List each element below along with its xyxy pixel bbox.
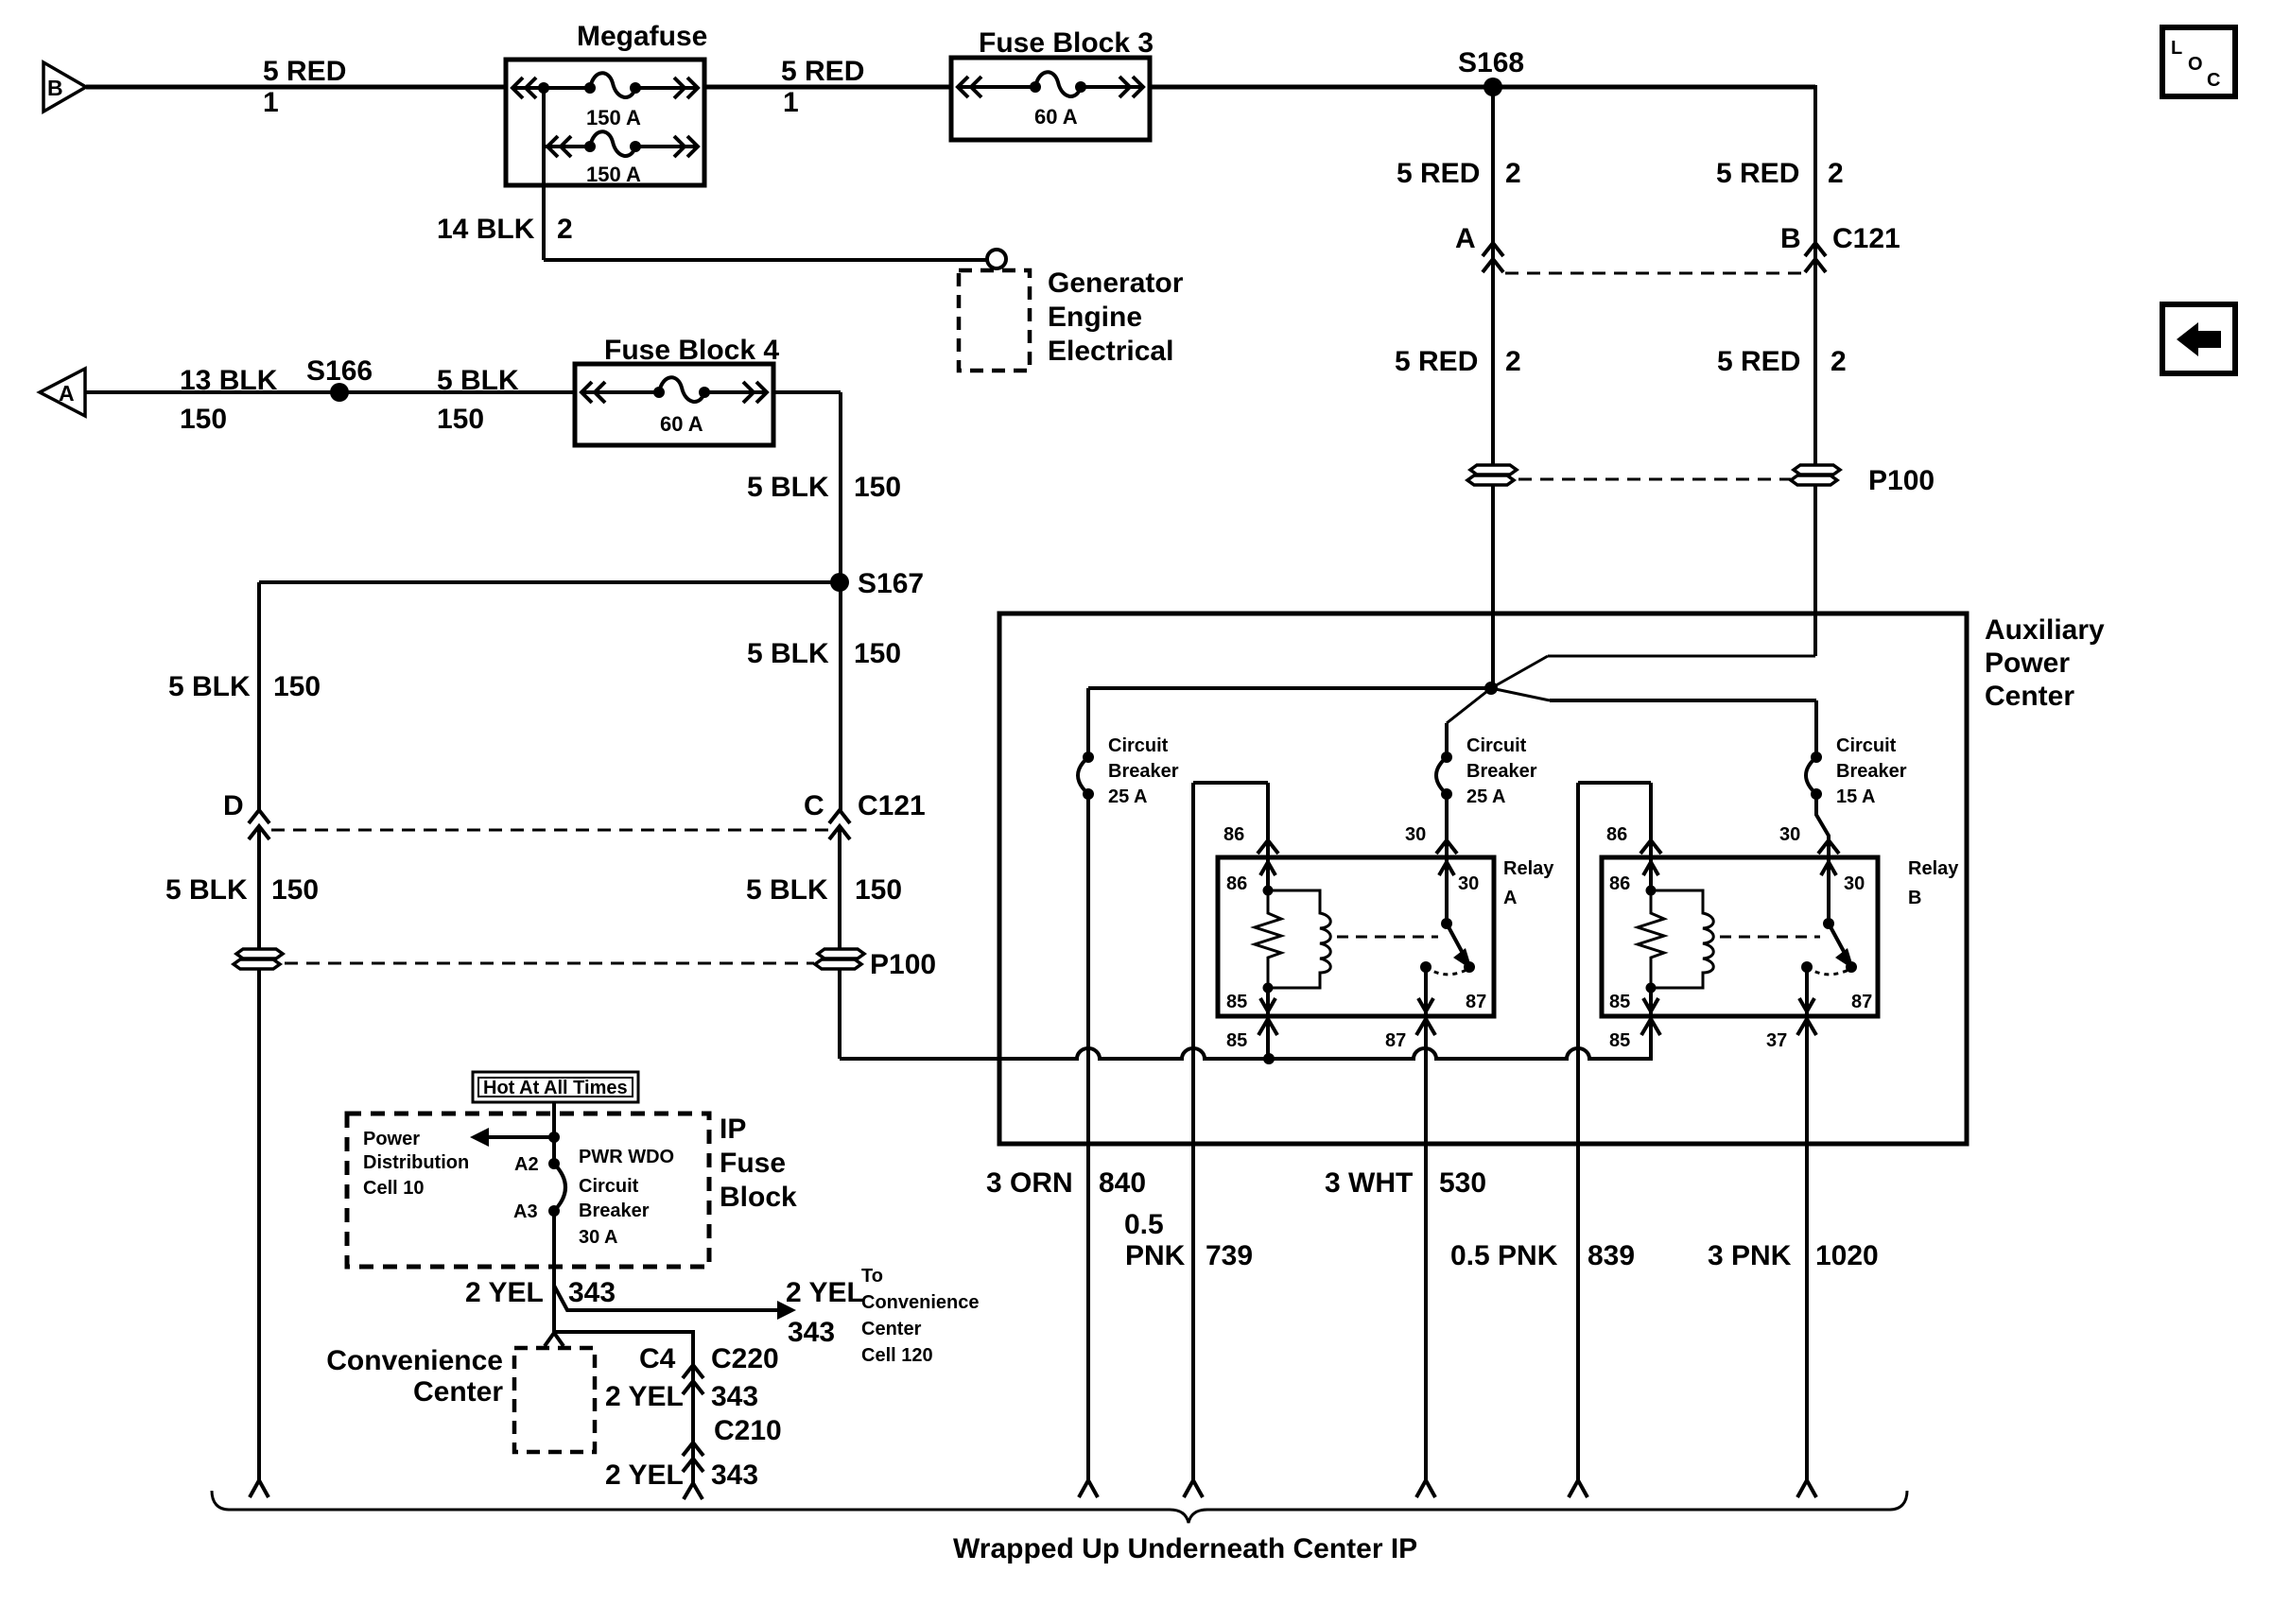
- svg-text:1: 1: [783, 87, 799, 118]
- fuse element 60 A in Fuse Block 3: [957, 72, 1144, 129]
- Megafuse box: [506, 21, 707, 185]
- svg-text:Power: Power: [363, 1129, 420, 1149]
- brace Wrapped Up Underneath Center IP: [212, 1491, 1907, 1564]
- relay A coil pin 86: [1226, 857, 1275, 896]
- dashed line C121 A-B: [1505, 272, 1804, 275]
- svg-text:343: 343: [788, 1317, 835, 1348]
- svg-text:25 A: 25 A: [1108, 786, 1148, 807]
- svg-text:840: 840: [1099, 1167, 1146, 1199]
- svg-text:3 PNK: 3 PNK: [1708, 1240, 1792, 1271]
- svg-text:2: 2: [1828, 158, 1844, 189]
- relay B coil pin 86: [1609, 857, 1658, 896]
- ground bus wire from C branch into Auxiliary Power Center: [840, 1017, 1651, 1064]
- svg-text:86: 86: [1226, 873, 1247, 894]
- wire junction to circuit breaker 2: [1447, 688, 1491, 757]
- dashed line C121 D-C: [271, 829, 828, 832]
- svg-text:Fuse: Fuse: [720, 1148, 786, 1179]
- svg-text:150: 150: [854, 472, 901, 503]
- relay A resistor: [1255, 890, 1281, 988]
- svg-text:2 YEL: 2 YEL: [786, 1277, 864, 1308]
- svg-text:343: 343: [711, 1460, 758, 1491]
- circuit breaker CB1 25 A: [1078, 735, 1179, 807]
- svg-text:Circuit: Circuit: [579, 1176, 639, 1197]
- Fuse Block 4 box: [575, 335, 779, 445]
- Hot At All Times tag: [473, 1072, 638, 1102]
- svg-text:S167: S167: [858, 568, 924, 599]
- relay A box: [1218, 857, 1554, 1016]
- svg-text:5 RED: 5 RED: [1717, 346, 1800, 377]
- svg-text:Power: Power: [1985, 648, 2070, 679]
- svg-text:Cell 120: Cell 120: [861, 1345, 933, 1366]
- svg-text:25 A: 25 A: [1466, 786, 1506, 807]
- wire B to Megafuse, 5 RED 1: [86, 56, 508, 118]
- svg-text:86: 86: [1223, 824, 1244, 845]
- svg-text:13 BLK: 13 BLK: [180, 365, 278, 396]
- relay B box: [1602, 857, 1959, 1016]
- svg-text:150: 150: [273, 671, 321, 702]
- svg-text:87: 87: [1851, 992, 1872, 1012]
- svg-text:Hot At All Times: Hot At All Times: [483, 1078, 628, 1098]
- svg-text:150: 150: [854, 638, 901, 669]
- relay A switch dashed link to coil: [1337, 936, 1438, 939]
- wire Fuse Block 4 to C branch corner: [747, 392, 901, 811]
- node S167: [747, 568, 924, 669]
- svg-text:5 RED: 5 RED: [1395, 346, 1478, 377]
- svg-text:60 A: 60 A: [660, 412, 703, 436]
- svg-text:0.5 PNK: 0.5 PNK: [1450, 1240, 1558, 1271]
- svg-text:Generator: Generator: [1048, 268, 1184, 299]
- relay B pin 30 switch: [1821, 857, 1865, 970]
- svg-text:Circuit: Circuit: [1466, 735, 1527, 756]
- svg-text:343: 343: [711, 1381, 758, 1412]
- circuit breaker CB2 25 A: [1436, 735, 1537, 807]
- svg-text:Breaker: Breaker: [1108, 761, 1179, 782]
- wire relay B pin 86 feed: [1578, 783, 1661, 1480]
- svg-text:2: 2: [1505, 158, 1521, 189]
- relay B pin 87 contact: [1766, 961, 1872, 1480]
- svg-text:150: 150: [271, 874, 319, 906]
- svg-text:IP: IP: [720, 1114, 746, 1145]
- grommet P100 on D branch: [234, 949, 283, 1480]
- svg-text:530: 530: [1439, 1167, 1486, 1199]
- wire hot feed into IP fuse block: [548, 1102, 560, 1164]
- wire S167 to D branch: [168, 582, 840, 811]
- connector A arrow: [40, 369, 85, 416]
- label 0.5 PNK 739: [1124, 1209, 1253, 1497]
- svg-text:Fuse Block 4: Fuse Block 4: [604, 335, 779, 366]
- svg-text:30: 30: [1844, 873, 1865, 894]
- connector C121 B-side chevrons: [1805, 243, 1826, 272]
- svg-text:Convenience: Convenience: [326, 1345, 503, 1376]
- svg-text:87: 87: [1385, 1030, 1406, 1051]
- svg-text:3 WHT: 3 WHT: [1325, 1167, 1413, 1199]
- svg-text:Fuse Block 3: Fuse Block 3: [979, 27, 1154, 59]
- icon LOC box: [2162, 27, 2235, 96]
- wire A3 down to convenience center, 2 YEL 343: [465, 1211, 616, 1332]
- svg-text:2: 2: [1505, 346, 1521, 377]
- svg-text:150: 150: [180, 404, 227, 435]
- svg-text:PNK: PNK: [1125, 1240, 1186, 1271]
- svg-text:5 RED: 5 RED: [1397, 158, 1480, 189]
- grommet P100 on B branch: [1791, 465, 1935, 496]
- svg-text:Center: Center: [861, 1319, 922, 1339]
- svg-text:C121: C121: [858, 790, 926, 821]
- svg-text:37: 37: [1766, 1030, 1787, 1051]
- svg-text:85: 85: [1609, 992, 1630, 1012]
- wire end chevron D branch bottom: [250, 1480, 269, 1497]
- svg-text:C220: C220: [711, 1343, 779, 1374]
- PWR WDO circuit breaker: [513, 1147, 674, 1248]
- svg-text:Megafuse: Megafuse: [577, 21, 707, 52]
- svg-text:D: D: [223, 790, 244, 821]
- relay A pin 30 switch: [1439, 857, 1479, 970]
- generator terminal circle: [987, 250, 1006, 268]
- connector C121 D-side chevrons: [165, 790, 319, 963]
- svg-text:5 BLK: 5 BLK: [746, 874, 828, 906]
- svg-text:Distribution: Distribution: [363, 1152, 469, 1173]
- wire CB2 to relay A pin 30: [1405, 794, 1457, 857]
- Generator Engine Electrical dashed box: [959, 268, 1184, 371]
- relay B resistor: [1638, 890, 1664, 988]
- wire junction to circuit breaker 3: [1491, 688, 1816, 757]
- svg-text:30: 30: [1458, 873, 1479, 894]
- svg-text:2 YEL: 2 YEL: [605, 1381, 684, 1412]
- svg-text:Breaker: Breaker: [579, 1201, 650, 1221]
- svg-text:S168: S168: [1458, 47, 1524, 78]
- svg-text:85: 85: [1609, 1030, 1630, 1051]
- wire Fuse Block 3 to corner, top bus: [1150, 85, 1815, 90]
- node S166: [306, 355, 373, 402]
- svg-text:2: 2: [557, 214, 573, 245]
- svg-text:B: B: [47, 76, 63, 100]
- Auxiliary Power Center box: [999, 613, 2105, 1144]
- svg-text:A: A: [59, 381, 75, 406]
- svg-text:14 BLK: 14 BLK: [437, 214, 535, 245]
- svg-text:5 BLK: 5 BLK: [437, 365, 519, 396]
- feed junction node inside APC: [1484, 656, 1815, 695]
- svg-text:86: 86: [1606, 824, 1627, 845]
- svg-text:5 BLK: 5 BLK: [168, 671, 251, 702]
- svg-text:3 ORN: 3 ORN: [986, 1167, 1073, 1199]
- svg-text:30 A: 30 A: [579, 1227, 618, 1248]
- svg-text:5 RED: 5 RED: [263, 56, 346, 87]
- svg-text:0.5: 0.5: [1124, 1209, 1164, 1240]
- connector C121 A-side chevrons: [1483, 243, 1503, 272]
- arrow to Power Distribution: [363, 1128, 554, 1199]
- circuit breaker CB3 15 A: [1806, 735, 1907, 807]
- svg-text:1: 1: [263, 87, 279, 118]
- svg-text:Cell 10: Cell 10: [363, 1178, 424, 1199]
- svg-text:2 YEL: 2 YEL: [605, 1460, 684, 1491]
- wire B branch 5 RED 2 (corner down): [1716, 85, 1900, 656]
- svg-text:C121: C121: [1832, 223, 1900, 254]
- svg-text:87: 87: [1466, 992, 1486, 1012]
- Fuse Block 3 box: [951, 27, 1154, 140]
- wire CB1 down to 3 ORN: [1086, 794, 1090, 1480]
- svg-text:Center: Center: [1985, 681, 2074, 712]
- wire relay A pin 86 feed: [1193, 783, 1278, 1480]
- dashed line P100 A-B: [1518, 478, 1791, 481]
- relay B coil: [1646, 890, 1714, 993]
- svg-text:5 BLK: 5 BLK: [747, 638, 829, 669]
- wire A branch 5 RED 2 (S168 down): [1395, 87, 1521, 688]
- label 3 PNK 1020: [1708, 1240, 1879, 1497]
- grommet P100 on A branch: [1467, 465, 1517, 485]
- svg-text:P100: P100: [870, 949, 936, 980]
- svg-text:Electrical: Electrical: [1048, 336, 1173, 367]
- fuse element 60 A in Fuse Block 4: [581, 377, 768, 436]
- svg-text:L: L: [2171, 38, 2182, 59]
- svg-text:150: 150: [437, 404, 484, 435]
- svg-text:B: B: [1908, 888, 1921, 908]
- svg-text:839: 839: [1588, 1240, 1635, 1271]
- svg-text:343: 343: [568, 1277, 616, 1308]
- relay B switch dashed link to coil: [1720, 936, 1820, 939]
- svg-text:15 A: 15 A: [1836, 786, 1876, 807]
- connector C4 chevron: [545, 1333, 779, 1374]
- svg-text:Convenience: Convenience: [861, 1292, 979, 1313]
- svg-text:A: A: [1503, 888, 1517, 908]
- svg-text:85: 85: [1226, 1030, 1247, 1051]
- wire C4 over to C220 column: [554, 1332, 693, 1484]
- label 0.5 PNK 839: [1450, 1240, 1635, 1497]
- wire end chevron below C210: [684, 1483, 703, 1499]
- svg-text:Center: Center: [413, 1376, 503, 1408]
- svg-text:Auxiliary: Auxiliary: [1985, 614, 2105, 646]
- svg-text:Breaker: Breaker: [1466, 761, 1537, 782]
- svg-text:150 A: 150 A: [586, 106, 641, 130]
- label 3 WHT 530: [1325, 1167, 1486, 1497]
- dashed line P100 D-C: [285, 962, 814, 965]
- svg-text:5 RED: 5 RED: [781, 56, 864, 87]
- svg-text:5 BLK: 5 BLK: [747, 472, 829, 503]
- svg-text:30: 30: [1405, 824, 1426, 845]
- svg-text:PWR WDO: PWR WDO: [579, 1147, 674, 1167]
- svg-text:O: O: [2188, 54, 2203, 75]
- relay A pin 85: [1226, 988, 1277, 1059]
- svg-text:Wrapped Up Underneath Center I: Wrapped Up Underneath Center IP: [953, 1533, 1417, 1564]
- svg-text:Circuit: Circuit: [1836, 735, 1897, 756]
- svg-text:C: C: [2207, 70, 2220, 91]
- connector C220 chevrons: [605, 1365, 758, 1412]
- svg-text:5 BLK: 5 BLK: [165, 874, 248, 906]
- svg-text:Engine: Engine: [1048, 302, 1142, 333]
- IP Fuse Block dashed box: [347, 1114, 797, 1267]
- Convenience Center dashed box: [326, 1345, 595, 1452]
- svg-text:86: 86: [1609, 873, 1630, 894]
- svg-text:C: C: [804, 790, 824, 821]
- fuse element 2 (150 A) in Megafuse: [544, 131, 699, 186]
- wire Megafuse to Fuse Block 3, 5 RED 1: [704, 56, 951, 118]
- wire branch to convenience center cell 120: [554, 1266, 979, 1366]
- connector C121 C-side chevrons: [746, 790, 926, 963]
- grommet P100 on C branch: [815, 949, 936, 1059]
- svg-text:2: 2: [1831, 346, 1847, 377]
- svg-text:B: B: [1780, 223, 1801, 254]
- wire CB3 to relay B pin 30: [1779, 794, 1839, 857]
- icon back arrow box: [2162, 304, 2235, 373]
- wire A to Fuse Block 4, 13 BLK 150: [85, 365, 575, 435]
- node S168: [1458, 47, 1524, 96]
- relay A coil: [1263, 890, 1331, 993]
- label 5 BLK 150 before Fuse Block 4: [437, 365, 519, 435]
- svg-text:739: 739: [1206, 1240, 1253, 1271]
- svg-text:A3: A3: [513, 1201, 538, 1222]
- connector C210 chevrons: [605, 1415, 782, 1491]
- wire junction to circuit breaker 1: [1088, 688, 1491, 757]
- svg-text:5 RED: 5 RED: [1716, 158, 1799, 189]
- svg-text:C4: C4: [639, 1343, 676, 1374]
- svg-text:A2: A2: [514, 1154, 539, 1175]
- svg-text:150: 150: [855, 874, 902, 906]
- svg-text:Circuit: Circuit: [1108, 735, 1169, 756]
- svg-text:Relay: Relay: [1503, 858, 1554, 879]
- svg-text:Block: Block: [720, 1182, 797, 1213]
- relay A pin 87 contact: [1385, 961, 1486, 1480]
- svg-text:85: 85: [1226, 992, 1247, 1012]
- svg-text:C210: C210: [714, 1415, 782, 1446]
- svg-text:P100: P100: [1868, 465, 1935, 496]
- svg-text:1020: 1020: [1815, 1240, 1879, 1271]
- connector B arrow: [43, 62, 86, 112]
- fuse element 1 (150 A) in Megafuse: [512, 73, 699, 130]
- svg-text:2 YEL: 2 YEL: [465, 1277, 544, 1308]
- svg-text:S166: S166: [306, 355, 373, 387]
- svg-text:Breaker: Breaker: [1836, 761, 1907, 782]
- wire 14 BLK 2 from Megafuse down to generator: [437, 88, 987, 260]
- svg-text:To: To: [861, 1266, 883, 1287]
- svg-text:60 A: 60 A: [1034, 105, 1078, 129]
- label 3 ORN 840: [986, 1167, 1146, 1497]
- svg-text:A: A: [1455, 223, 1476, 254]
- relay B pin 85: [1609, 988, 1660, 1051]
- svg-text:30: 30: [1779, 824, 1800, 845]
- svg-text:Relay: Relay: [1908, 858, 1959, 879]
- svg-text:150 A: 150 A: [586, 163, 641, 186]
